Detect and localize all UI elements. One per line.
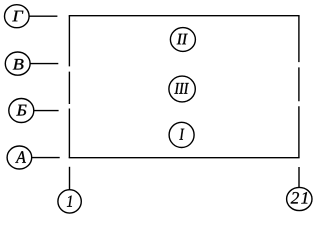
wire: device box bottom edge xyxy=(69,157,300,159)
winding III circle xyxy=(169,76,195,102)
pin 21 circle xyxy=(287,187,312,210)
winding II circle xyxy=(170,28,195,52)
pin 1 circle xyxy=(58,190,81,213)
label pin 21 xyxy=(291,192,308,203)
label winding I xyxy=(179,129,184,140)
terminal B circle xyxy=(9,99,34,123)
winding I circle xyxy=(169,122,194,147)
wire: lead from terminal G xyxy=(29,15,57,17)
label B (Cyrillic Be) xyxy=(16,105,26,116)
wire: lead from terminal V xyxy=(30,63,58,65)
label V (Cyrillic Ve) xyxy=(13,59,24,70)
label winding III xyxy=(174,83,189,94)
wire: device box left edge (three segments with breaks) xyxy=(68,16,70,158)
wire: drop to pin 21 xyxy=(298,167,300,187)
wire: lead from terminal A xyxy=(32,157,60,159)
wire: drop to pin 1 xyxy=(69,167,71,190)
terminal G circle xyxy=(4,5,29,28)
label winding II xyxy=(177,34,188,45)
terminal V circle xyxy=(5,52,30,75)
label G (Cyrillic Ghe) xyxy=(12,11,23,22)
wire: lead from terminal B xyxy=(34,110,59,112)
wire: device box top edge xyxy=(69,15,300,17)
label A (Cyrillic A) xyxy=(15,151,26,163)
label pin 1 xyxy=(67,196,72,207)
terminal A circle xyxy=(7,146,32,169)
wire: device box right edge (three segments with breaks) xyxy=(298,16,300,158)
